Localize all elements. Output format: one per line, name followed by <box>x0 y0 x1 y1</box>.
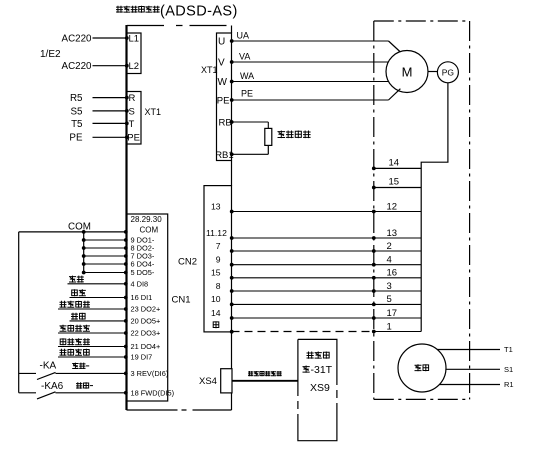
svg-text:T5: T5 <box>71 119 83 130</box>
svg-text:L1: L1 <box>129 34 140 45</box>
wire CN2 pin 13 to terminal 12 <box>232 211 422 213</box>
svg-text:-31T: -31T <box>311 364 333 376</box>
wire resistor to RB1 <box>267 145 269 154</box>
svg-text:S: S <box>129 106 135 117</box>
wire CN2 pin 7 to terminal 2 <box>232 250 422 252</box>
connector CN2 <box>204 186 232 332</box>
wire AC220 to L2 <box>93 65 127 67</box>
svg-text:16 DI1: 16 DI1 <box>131 293 153 302</box>
svg-text:-KA6: -KA6 <box>41 381 64 392</box>
svg-text:-KA: -KA <box>40 361 57 372</box>
DO- common bus vertical <box>83 232 85 273</box>
svg-text:23 DO2+: 23 DO2+ <box>131 305 161 314</box>
box XS9 (to -31T unit) <box>298 339 337 440</box>
svg-text:28.29.30: 28.29.30 <box>131 215 163 224</box>
wire DO- branch at 264.0 <box>84 263 127 265</box>
svg-text:20 DO5+: 20 DO5+ <box>131 317 161 326</box>
svg-text:L2: L2 <box>129 61 140 72</box>
wire CN2 pin 8 to terminal 3 <box>232 290 422 292</box>
wire S5 to S <box>93 110 127 112</box>
svg-text:9: 9 <box>216 255 221 265</box>
svg-text:17: 17 <box>387 308 398 319</box>
svg-text:18 FWD(DI5): 18 FWD(DI5) <box>131 388 175 397</box>
svg-text:W: W <box>218 77 228 88</box>
contact -KA6 (reverse) on wire to 18 FWD(DI5) <box>19 392 36 394</box>
wire CN2 pin 9 to terminal 4 <box>232 264 422 266</box>
svg-text:R5: R5 <box>70 93 83 104</box>
svg-text:4: 4 <box>387 255 392 266</box>
drive right edge seg2 <box>231 161 233 186</box>
svg-text:COM: COM <box>68 222 91 233</box>
svg-text:RB: RB <box>219 118 232 129</box>
connector CN1 <box>127 214 168 401</box>
svg-text:PE: PE <box>127 133 140 144</box>
svg-text:S5: S5 <box>71 106 84 117</box>
svg-text:VA: VA <box>239 52 250 62</box>
wire T5 to T <box>93 122 127 124</box>
svg-text:PG: PG <box>442 68 454 78</box>
wire spindle speed command <box>232 380 298 382</box>
wire AC220 to L1 <box>93 37 127 39</box>
svg-text:1/E2: 1/E2 <box>40 49 61 60</box>
wire CN2 pin 10 to terminal 5 <box>232 303 422 305</box>
wire PE to PE <box>93 136 127 138</box>
wire VA <box>232 61 389 63</box>
svg-text:2: 2 <box>387 241 392 252</box>
svg-text:AC220: AC220 <box>62 33 93 44</box>
wire DO- branch at 272.5 <box>84 272 127 274</box>
wire R5 to R <box>93 97 127 99</box>
svg-text:PE: PE <box>217 96 230 107</box>
wire RB1 <box>232 153 269 155</box>
svg-text:T: T <box>129 119 135 130</box>
svg-text:10: 10 <box>211 294 221 304</box>
wire XS4 down to drive bottom <box>231 393 233 410</box>
svg-text:15: 15 <box>389 177 400 188</box>
wire 15 <box>374 187 421 189</box>
fan circle <box>398 344 446 392</box>
wire PE (motor) <box>232 99 389 101</box>
wire reset (fu-wei) to 16 DI1 <box>70 297 127 299</box>
svg-text:V: V <box>218 58 225 69</box>
svg-text:15: 15 <box>211 268 221 278</box>
svg-text:T1: T1 <box>504 345 513 354</box>
svg-text:19 DI7: 19 DI7 <box>131 353 153 362</box>
wire M to PG <box>428 71 437 73</box>
braking resistor <box>265 128 272 145</box>
wire fan T1 <box>437 349 500 351</box>
label spindle speed command (Chinese) <box>248 371 253 376</box>
wire WA <box>232 81 389 83</box>
svg-text:XT1: XT1 <box>145 107 162 117</box>
connector XS4 <box>221 369 232 393</box>
svg-text:PE: PE <box>69 133 83 144</box>
wire DO- branch at 256.0 <box>84 255 127 257</box>
terminal box R S T PE <box>127 92 142 145</box>
wire zero-speed to 20 DO5+ <box>70 320 127 322</box>
PG feedback cable <box>421 83 448 332</box>
svg-text:13: 13 <box>387 228 398 239</box>
wire UA <box>232 40 389 42</box>
svg-text:U: U <box>218 37 225 48</box>
svg-text:XS9: XS9 <box>310 382 330 394</box>
enclosure bottom edge (dash-dot) <box>374 398 470 400</box>
svg-text:13: 13 <box>211 201 221 211</box>
svg-text:AC220: AC220 <box>62 61 93 72</box>
wire speed-reached to 22 DO3+ <box>58 332 127 334</box>
drive unit top edge (dashed) <box>127 25 232 27</box>
svg-text:5 DO5-: 5 DO5- <box>131 268 155 277</box>
wire positioning-done to 21 DO4+ <box>58 346 127 348</box>
svg-text:XS4: XS4 <box>199 376 217 387</box>
wire running-monitor to 23 DO2+ <box>58 308 127 310</box>
svg-text:21 DO4+: 21 DO4+ <box>131 342 161 351</box>
wire enable (shi-neng) to 4 DI8 <box>68 283 127 285</box>
drive unit left edge <box>125 25 127 410</box>
wire fan S1 <box>446 368 500 370</box>
wire DO- branch at 248.0 <box>84 247 127 249</box>
wire fan R1 <box>440 384 501 386</box>
wire 14 <box>374 167 421 169</box>
wire RB <box>232 121 269 123</box>
svg-text:WA: WA <box>240 71 254 81</box>
left COM bus vertical <box>18 232 20 393</box>
drive unit bottom edge (dashed) <box>127 409 232 411</box>
svg-text:11.12: 11.12 <box>206 228 227 238</box>
motor M <box>386 51 428 93</box>
title: spindle servo drive (ADSD-AS) <box>116 6 123 13</box>
contact -KA (forward) on wire to 3 REV(DI6) <box>19 372 36 374</box>
svg-text:4 DI8: 4 DI8 <box>131 279 149 288</box>
wire CN2 shield (dashed) to terminal 1 <box>232 331 374 333</box>
svg-text:S1: S1 <box>504 365 513 374</box>
label forward (zheng-zhuan) <box>72 363 78 369</box>
svg-text:CN1: CN1 <box>172 295 191 306</box>
label -31T <box>303 366 310 373</box>
wire positioning-cmd to 19 DI7 <box>58 356 127 358</box>
wire CN2 pin 15 to terminal 16 <box>232 277 422 279</box>
wire CN2 pin 14 to terminal 17 <box>232 317 422 319</box>
label reverse (fan-zhuan) <box>76 382 82 388</box>
label da-lian-ban (Chinese) <box>307 352 314 359</box>
enclosure right edge (dash-dot) <box>469 21 471 399</box>
label braking resistor (Chinese) <box>278 131 286 139</box>
svg-text:7: 7 <box>216 241 221 251</box>
label fan (Chinese) <box>415 364 422 371</box>
svg-text:3 REV(DI6): 3 REV(DI6) <box>131 369 169 378</box>
svg-text:14: 14 <box>389 158 400 169</box>
svg-text:14: 14 <box>211 308 221 318</box>
terminal box L1 L2 <box>127 33 142 74</box>
svg-text:16: 16 <box>387 268 398 279</box>
wire CN2 pin 11.12 to terminal 13 <box>232 237 422 239</box>
svg-text:PE: PE <box>241 89 253 99</box>
svg-text:CN2: CN2 <box>178 257 197 268</box>
enclosure left edge (dash-dot) <box>373 21 375 399</box>
svg-text:5: 5 <box>387 294 392 305</box>
svg-text:R: R <box>129 93 136 104</box>
drive right edge seg1 <box>231 26 233 34</box>
svg-text:UA: UA <box>237 31 250 41</box>
connector XT1 output U V W PE RB RB1 <box>217 33 232 161</box>
svg-text:XT1: XT1 <box>201 65 218 75</box>
svg-text:1: 1 <box>387 321 392 332</box>
svg-text:R1: R1 <box>504 380 514 389</box>
enclosure top edge (dash-dot) <box>374 20 470 22</box>
svg-text:(ADSD-AS): (ADSD-AS) <box>160 4 238 20</box>
svg-text:COM: COM <box>140 226 159 235</box>
CN2 pin label shield (Chinese) <box>213 321 219 328</box>
svg-text:M: M <box>402 65 413 80</box>
wire DO- branch at 240.0 <box>84 239 127 241</box>
wire COM to CN1 <box>19 231 127 233</box>
svg-text:8: 8 <box>216 281 221 291</box>
svg-text:22 DO3+: 22 DO3+ <box>131 329 161 338</box>
wire CN2 corner down to XS4 <box>231 332 233 369</box>
encoder PG <box>437 62 458 83</box>
svg-text:3: 3 <box>387 281 392 292</box>
svg-text:12: 12 <box>387 201 398 212</box>
